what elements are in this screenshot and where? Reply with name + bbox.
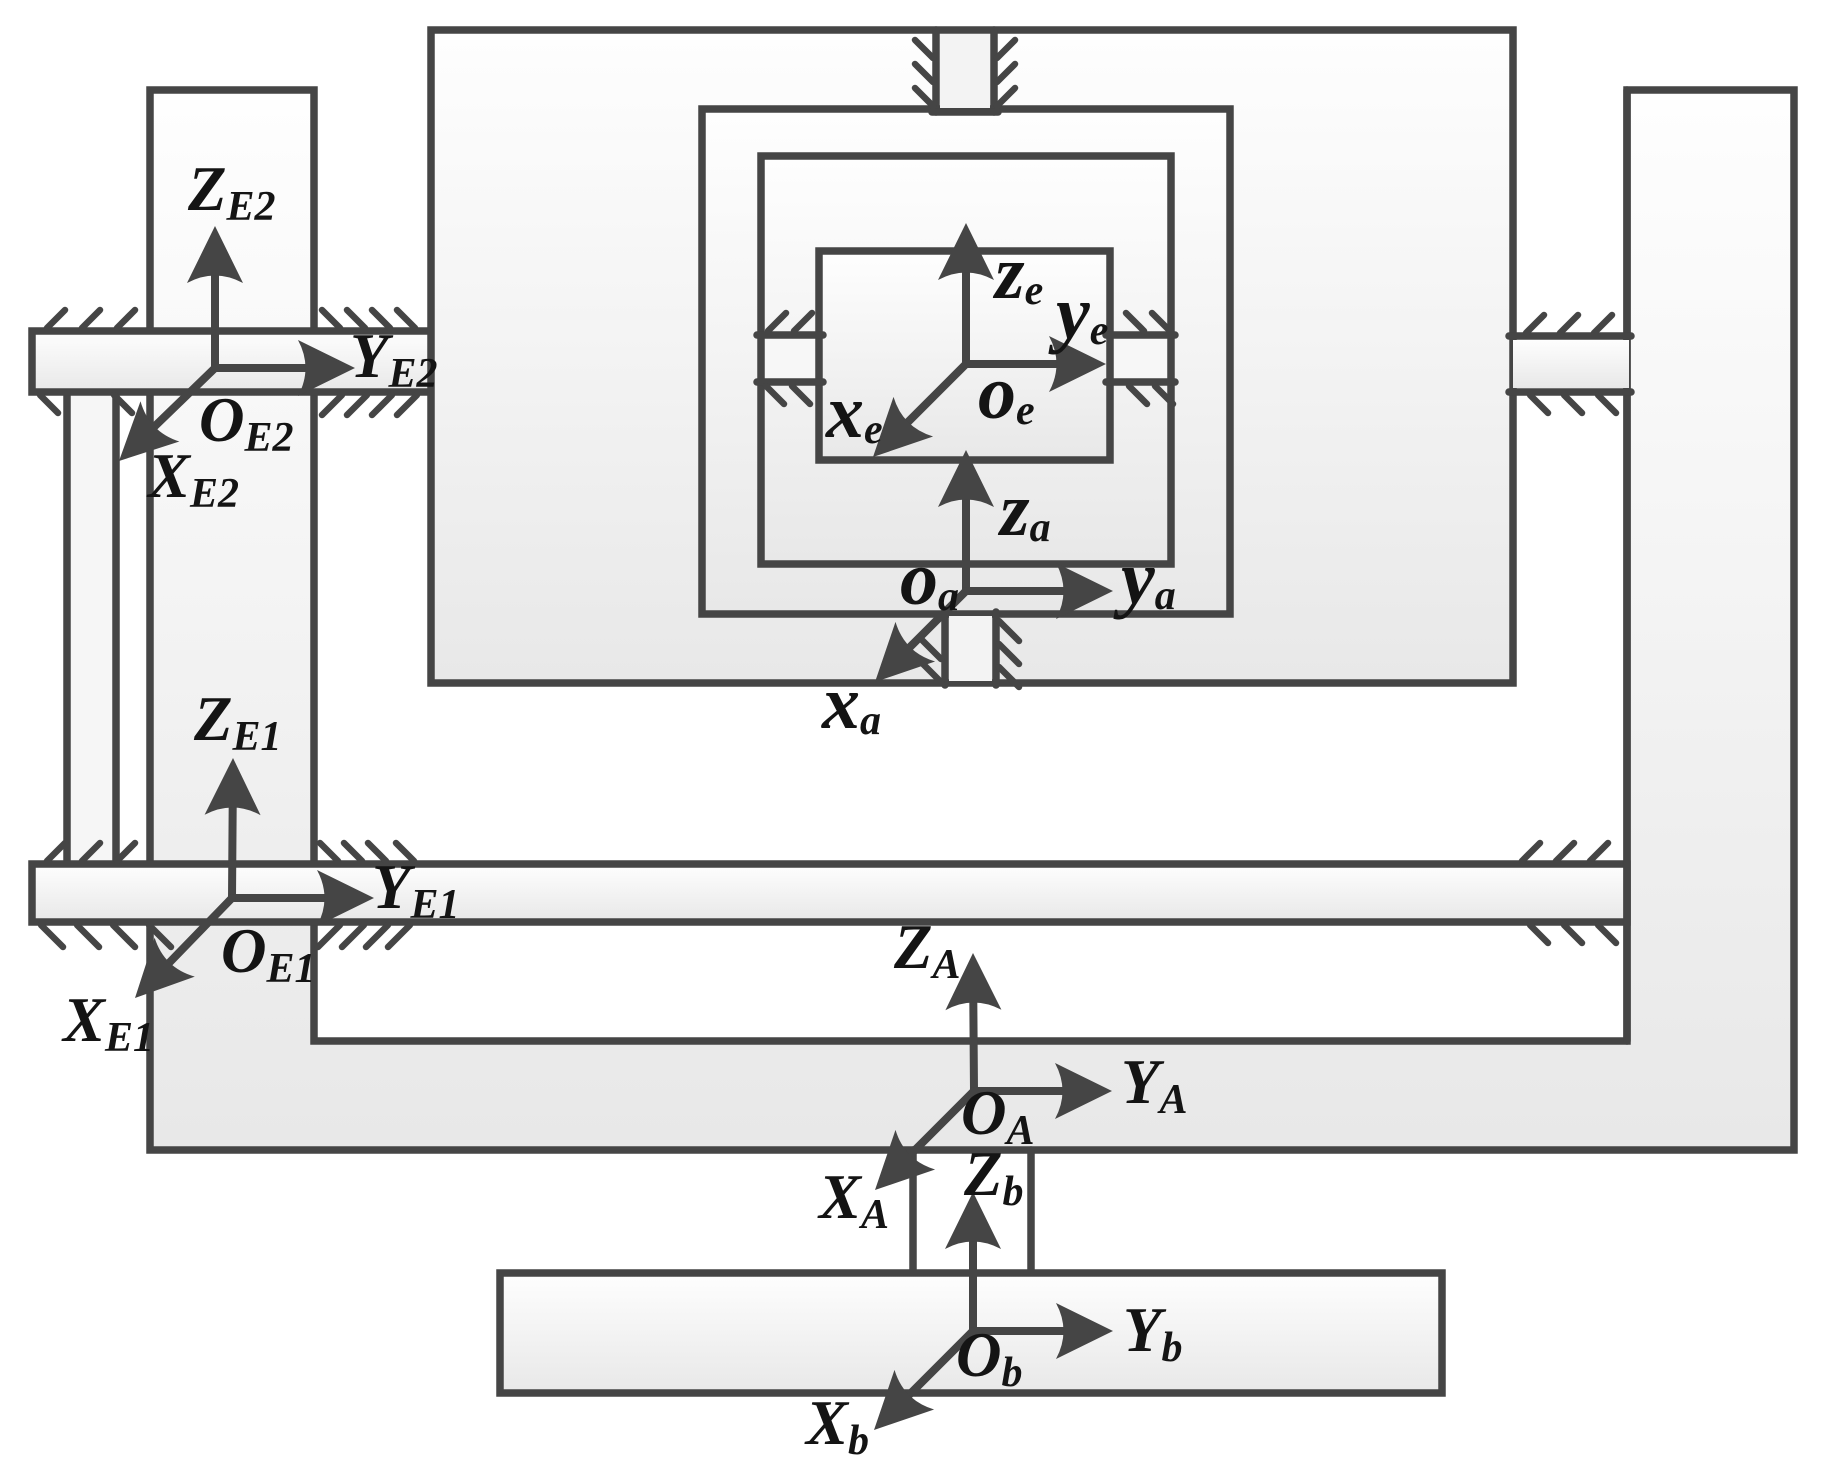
label Z_E1 [193, 684, 282, 760]
right prismatic channel [1106, 335, 1175, 382]
hatching at E2 slider joints [40, 310, 417, 415]
label Z_E2 [187, 154, 276, 230]
label Z_A [893, 912, 961, 988]
lower slider bar (E1 stage) [32, 864, 1627, 922]
label O_b [956, 1320, 1023, 1396]
label Y_E2 [350, 321, 438, 397]
label y_e [1048, 271, 1108, 355]
hatching at top joint [915, 40, 1015, 106]
hatching at E1 bar right end [1522, 843, 1616, 943]
main moving plate [431, 30, 1513, 683]
axis Z_A arrow [945, 953, 1001, 1091]
label x_e [825, 370, 883, 454]
axis x_e arrow [873, 364, 966, 457]
hatching at right channel [1126, 313, 1173, 404]
axis Y_b arrow [973, 1303, 1113, 1359]
label O_E1 [221, 916, 316, 992]
svg-text:XA: XA [817, 1162, 889, 1238]
label o_e [978, 351, 1035, 435]
right column inner edge over bar [1623, 90, 1631, 1041]
hatching at E1 slider joints (left column) [41, 843, 414, 947]
label x_a [821, 661, 881, 745]
left prismatic channel [757, 335, 823, 382]
label z_a [997, 468, 1051, 552]
label X_b [804, 1388, 869, 1464]
base bar [500, 1273, 1442, 1393]
bottom joint block [945, 612, 996, 685]
axis Y_E2 arrow [215, 340, 355, 396]
outer gimbal frame (rect 2) [702, 109, 1230, 614]
label y_a [1113, 536, 1176, 620]
label Y_A [1121, 1047, 1188, 1123]
axis x_a arrow [875, 591, 966, 682]
label Y_b [1123, 1295, 1182, 1371]
top joint block [932, 30, 998, 112]
left vertical link rod between slider bars [67, 391, 116, 864]
axis Y_E1 arrow [232, 870, 374, 926]
axis Y_A arrow [974, 1063, 1112, 1119]
axis z_e arrow [938, 223, 994, 364]
upper slider bar (E2 stage) [32, 331, 432, 392]
innermost platform (end effector) [819, 251, 1110, 460]
svg-text:XE1: XE1 [61, 985, 154, 1061]
label X_E1 [61, 985, 154, 1061]
label O_A [961, 1078, 1035, 1154]
axis X_A arrow [875, 1091, 974, 1190]
hatching at bottom joint [921, 621, 1019, 687]
axis y_a arrow [966, 563, 1113, 619]
middle gimbal frame (rect 3) [761, 156, 1171, 564]
pedestal between frame and base [913, 1150, 1031, 1273]
label Z_b [963, 1139, 1023, 1215]
right slider rod (E2 level) [1509, 336, 1631, 392]
label o_a [900, 537, 959, 621]
axis y_e arrow [966, 336, 1106, 392]
axis X_E2 arrow [119, 368, 215, 461]
svg-text:Xb: Xb [804, 1388, 869, 1464]
axis X_E1 arrow [135, 898, 232, 998]
label Y_E1 [372, 852, 460, 928]
label z_e [992, 231, 1043, 315]
label X_E2 [146, 441, 239, 517]
axis Z_E2 arrow [187, 226, 243, 368]
hatching at right slider rod joint [1526, 315, 1616, 413]
axis Z_E1 arrow [205, 758, 261, 898]
axis X_b arrow [874, 1331, 973, 1430]
hatching at left channel [766, 313, 812, 404]
fixed U-frame (left column, bottom beam, right column) [150, 90, 1794, 1150]
label X_A [817, 1162, 889, 1238]
axis z_a arrow [938, 450, 994, 591]
label O_E2 [199, 385, 294, 461]
axis Z_b arrow [945, 1192, 1001, 1331]
